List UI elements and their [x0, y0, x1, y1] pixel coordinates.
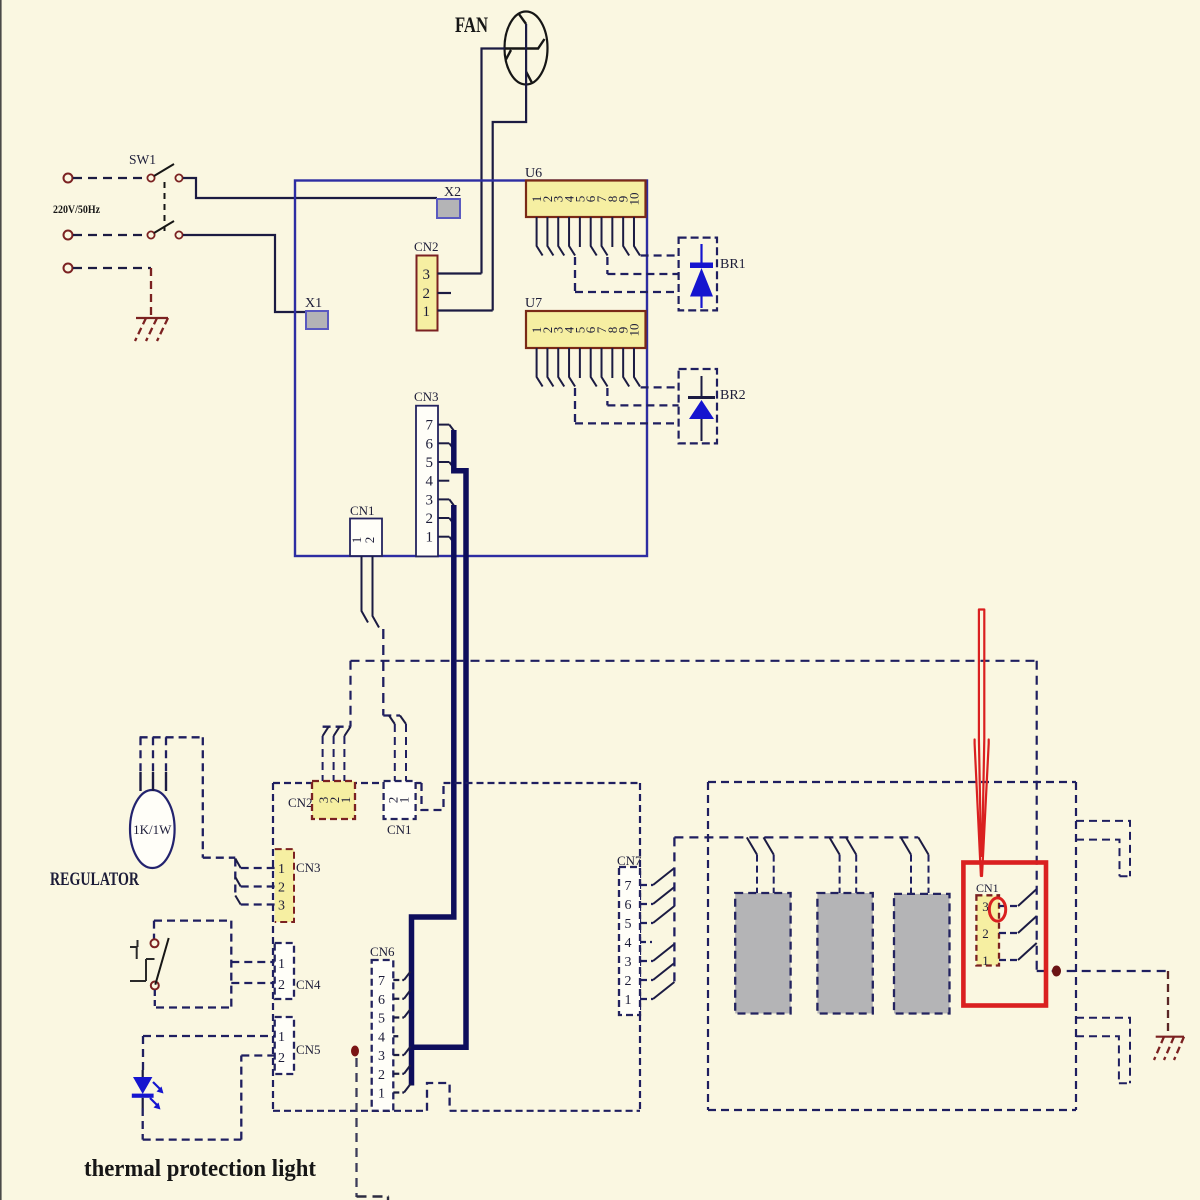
svg-text:5: 5: [426, 455, 434, 471]
wire CN1 drop bus: [383, 714, 400, 716]
svg-text:1: 1: [278, 1030, 285, 1045]
svg-text:2: 2: [378, 1068, 385, 1083]
wire CN4 riser: [230, 921, 232, 1008]
wire to CN3 module: [203, 857, 236, 859]
svg-text:1K/1W: 1K/1W: [133, 822, 172, 837]
display board CN1 notch: [422, 783, 444, 810]
thermal switch blade: [155, 938, 168, 985]
svg-text:1: 1: [278, 957, 285, 972]
ground (power unit): [1156, 1036, 1184, 1038]
switch SW1 pole1 right contact: [175, 174, 182, 181]
wire U6 pin7 bus to BR1: [607, 273, 678, 275]
svg-text:2: 2: [362, 537, 377, 544]
connector CN2 (module): [312, 781, 355, 819]
svg-text:CN4: CN4: [296, 977, 321, 992]
LED light arrow 1: [153, 1082, 161, 1090]
fan motor M1 body: [505, 12, 548, 85]
wire hook CN3 module pin2: [235, 877, 240, 887]
wire drop to CN1 module pin1: [405, 724, 407, 781]
display board bottom notch: [427, 1083, 450, 1111]
wire CN1 power pin2 stub: [999, 932, 1018, 934]
thermal actuator bracket: [130, 940, 155, 981]
CN6 pin2 hook: [404, 1065, 411, 1074]
wire CN3 module distribution: [234, 859, 236, 896]
svg-text:5: 5: [378, 1012, 385, 1027]
wire drop CN2 module pin3: [322, 736, 324, 781]
wire CN2 pin2 stub: [438, 292, 452, 294]
resistor 1K/1W body: [130, 790, 175, 868]
svg-text:CN1: CN1: [387, 822, 412, 837]
diode BR1 anode lead: [700, 244, 702, 264]
wire PE drop: [150, 268, 152, 316]
svg-text:X2: X2: [444, 185, 461, 200]
wire thermal switch top: [154, 919, 231, 921]
wire SW1 pole2 to X1: [183, 235, 306, 312]
annotation red arrow: [975, 610, 989, 877]
svg-text:3: 3: [278, 899, 285, 914]
wire terminal N to SW1: [73, 234, 147, 236]
svg-text:6: 6: [378, 993, 385, 1008]
resistor lead 2 dashed: [152, 737, 154, 772]
wire U6 pin7 drop: [606, 257, 608, 274]
svg-text:4: 4: [378, 1030, 385, 1045]
U6 pin leads: [537, 217, 543, 256]
wire CN2 pin1 to fan: [438, 309, 493, 311]
display board bottom edge: [273, 1110, 427, 1112]
heater block 1 pin drops: [757, 855, 774, 893]
junction dot (red): [351, 1046, 359, 1057]
CN6 pin6 hook: [404, 990, 411, 999]
terminal block X2: [437, 199, 460, 218]
svg-text:CN5: CN5: [296, 1042, 321, 1057]
wire junction bottom corner: [387, 1197, 389, 1200]
CN3 pin7 hook: [449, 425, 454, 431]
wire fan left lead to CN2 pin3: [482, 49, 506, 274]
svg-text:7: 7: [378, 974, 385, 989]
wire resistor bus drop: [202, 737, 204, 857]
svg-text:1: 1: [338, 797, 353, 804]
svg-text:3: 3: [625, 955, 632, 970]
svg-text:CN6: CN6: [370, 944, 395, 959]
wire LED bottom run: [143, 1138, 242, 1140]
svg-text:1: 1: [378, 1087, 385, 1102]
terminal L (phase): [64, 174, 73, 183]
connector CN6: [372, 960, 394, 1111]
svg-text:10: 10: [626, 193, 641, 206]
svg-text:U7: U7: [525, 296, 542, 311]
heater block 2 pin hooks: [829, 837, 856, 854]
power unit tab lower: [1076, 1018, 1130, 1084]
wire fan bottom lead to CN2 pin1: [493, 24, 526, 311]
terminal block X1: [306, 311, 328, 329]
svg-text:2: 2: [278, 978, 285, 993]
heater block 2: [817, 893, 872, 1014]
diode BR2 bottom lead: [701, 419, 703, 441]
LED D1 triangle: [133, 1077, 152, 1094]
wire CN3 module pin3 dash: [241, 903, 275, 905]
wire junction drop: [355, 1058, 357, 1197]
wire hook to CN1 module pin1: [400, 716, 406, 725]
ground (mains earth): [136, 317, 168, 319]
svg-text:REGULATOR: REGULATOR: [50, 869, 139, 890]
wire hook CN3 module pin1: [235, 859, 240, 869]
thermal switch top contact: [151, 939, 159, 947]
CN7 pin7 hook: [653, 868, 674, 885]
display board outline top edge: [273, 782, 422, 784]
svg-text:SW1: SW1: [129, 152, 156, 167]
switch SW1 pole2 right contact: [175, 231, 182, 238]
svg-text:CN3: CN3: [296, 860, 321, 875]
wire junction bottom run: [357, 1195, 390, 1197]
svg-text:BR1: BR1: [720, 257, 746, 272]
connector CN1 (power unit): [976, 895, 999, 965]
wire CN1 board drop (dashed): [382, 629, 384, 716]
CN3 pin2 hook: [449, 518, 454, 524]
wire U6 pin10 bus to BR1: [641, 254, 679, 256]
diode BR2 anode lead: [701, 376, 703, 396]
heater block 1 pin hooks: [747, 837, 774, 854]
connector CN1 (module): [384, 781, 416, 819]
heater block 1: [735, 893, 790, 1014]
wire CN5 pin2 dash: [241, 1054, 274, 1056]
svg-text:X1: X1: [305, 296, 322, 311]
CN6 pin stubs: [393, 979, 404, 981]
wire CN4 pin2 dash: [231, 982, 274, 984]
wire U7 pin4 bus to BR2: [575, 422, 679, 424]
svg-text:1: 1: [278, 862, 285, 877]
svg-text:4: 4: [625, 936, 632, 951]
wire LED cathode pin: [142, 1098, 144, 1108]
wire long bus to CN1 (right unit): [351, 660, 1037, 662]
wire U7 pin10 bus to BR2: [641, 386, 679, 388]
svg-text:6: 6: [625, 898, 632, 913]
wire terminal PE to ground: [73, 267, 151, 269]
diode BR2 cathode bar: [688, 396, 715, 399]
diode BR2 triangle: [689, 400, 714, 419]
svg-text:CN1: CN1: [350, 503, 375, 518]
svg-text:CN7: CN7: [617, 853, 642, 868]
wire ground drop right: [1167, 971, 1169, 1036]
wire CN1 power pin2 hook: [1018, 916, 1037, 933]
svg-text:2: 2: [982, 926, 989, 941]
resistor lead 1 pin: [139, 772, 141, 791]
svg-text:3: 3: [423, 267, 431, 283]
wire CN5 pin2 riser: [240, 1056, 242, 1140]
wire U7 pin7 bus to BR2: [607, 404, 678, 406]
LED light arrow 2: [150, 1098, 158, 1106]
wire drop CN2 module pin2: [333, 736, 335, 781]
wire hook CN3 module pin3: [235, 896, 240, 905]
CN7 pin5 hook: [653, 906, 674, 923]
svg-text:7: 7: [426, 418, 434, 434]
wire CN7 bus to power unit: [674, 836, 918, 838]
U7 pin leads: [537, 348, 543, 387]
IC U7 (resistor network): [526, 311, 646, 348]
fan blades: [505, 14, 545, 83]
svg-text:4: 4: [426, 474, 434, 490]
CN1 board pin leads: [362, 556, 380, 628]
wire CN2 module bus: [323, 726, 351, 728]
thermal switch bottom lead: [154, 990, 156, 1008]
svg-text:3: 3: [426, 492, 434, 508]
display board bottom edge right part: [450, 1110, 640, 1112]
wire hook CN2 module pin2: [334, 727, 340, 736]
wire CN5 pin1 dash: [143, 1035, 275, 1037]
diode BR1 bottom lead: [700, 297, 702, 309]
svg-text:2: 2: [278, 881, 285, 896]
display board left edge: [272, 783, 274, 1111]
thermal switch bottom contact: [151, 982, 159, 990]
svg-text:CN2: CN2: [414, 239, 439, 254]
heater block 3 pin drops: [911, 855, 929, 893]
svg-text:CN1: CN1: [976, 881, 999, 895]
CN3 pin3 hook: [449, 499, 454, 505]
svg-text:2: 2: [278, 1051, 285, 1066]
svg-text:1: 1: [426, 530, 434, 546]
CN6 pin5 hook: [404, 1009, 411, 1018]
terminal N: [64, 231, 73, 240]
heater block 2 pin drops: [840, 855, 857, 893]
resistor lead 3 dashed: [165, 737, 167, 772]
power unit outline top: [708, 781, 1076, 783]
wire LED anode drop: [142, 1036, 144, 1070]
wire CN2 pin3 to fan: [438, 272, 482, 274]
wire CN3 module pin1 dash: [241, 867, 275, 869]
svg-text:U6: U6: [525, 166, 542, 181]
connector CN5: [275, 1017, 294, 1074]
connector CN2 (board): [417, 256, 438, 331]
IC U6 (resistor network): [526, 181, 646, 218]
wire terminal L to SW1: [73, 177, 147, 179]
wire drop to CN1 module pin2: [394, 724, 396, 781]
wire U7 pin7 drop: [606, 388, 608, 405]
CN7 pin1 hook: [653, 982, 674, 999]
svg-text:7: 7: [625, 879, 632, 894]
power unit tab upper: [1076, 821, 1130, 876]
svg-text:2: 2: [426, 511, 434, 527]
wire U7 pin4 drop: [574, 388, 576, 423]
wire U6 pin4 bus to BR1: [575, 291, 679, 293]
CN3 pin1 hook: [449, 537, 454, 543]
resistor lead 3 pin: [165, 772, 167, 791]
display board top edge right part: [444, 782, 641, 784]
svg-text:thermal protection light: thermal protection light: [84, 1156, 316, 1182]
svg-text:FAN: FAN: [455, 12, 488, 37]
scan edge artifact: [0, 0, 2, 1200]
CN3 pin6 hook: [449, 443, 454, 449]
svg-text:1: 1: [625, 993, 632, 1008]
CN3 pin5 hook: [449, 462, 454, 468]
svg-text:5: 5: [625, 917, 632, 932]
switch SW1 pole1 blade: [154, 164, 174, 176]
power unit outline bottom: [708, 1109, 1076, 1111]
wire to right ground: [1037, 970, 1168, 972]
wire bus drop to CN2 module: [349, 661, 351, 727]
annotation red rectangle: [963, 863, 1046, 1006]
wire CN1 power pin3 hook: [1018, 889, 1037, 906]
CN7 pin6 hook: [653, 887, 674, 904]
LED D1 cathode bar: [132, 1094, 154, 1098]
wire hook CN2 module pin3: [323, 727, 329, 736]
connector CN4: [275, 943, 294, 999]
power unit outline left: [707, 782, 709, 1110]
CN7 pin stubs: [640, 884, 653, 886]
connector CN1 (board): [350, 519, 382, 557]
wire drop CN2 module pin1: [343, 736, 345, 781]
junction dot right (maroon): [1052, 966, 1061, 977]
switch SW1 pole2 blade: [154, 221, 174, 233]
wire SW1 pole1 to X2: [183, 178, 437, 198]
wire switch top drop: [153, 921, 155, 939]
CN7 pin2 hook: [653, 963, 674, 980]
wire hook CN2 module pin1: [344, 727, 350, 736]
diode BR1 triangle: [690, 268, 713, 297]
svg-text:6: 6: [426, 436, 434, 452]
switch SW1 pole1 left contact: [147, 174, 154, 181]
CN7 pin3 hook: [653, 944, 674, 961]
wire CN7 bus riser: [673, 837, 675, 983]
resistor lead 1 dashed: [139, 737, 141, 772]
CN3 pin stubs: [439, 424, 450, 426]
connector CN7: [619, 867, 640, 1015]
svg-text:BR2: BR2: [720, 388, 746, 403]
svg-text:220V/50Hz: 220V/50Hz: [53, 202, 101, 216]
display board right edge: [639, 783, 641, 1111]
annotation red circle: [989, 898, 1005, 921]
svg-text:3: 3: [982, 899, 989, 914]
resistor lead 2 pin: [152, 772, 154, 791]
CN6 pin3 hook: [404, 1047, 411, 1056]
thick wire B (CN3.3 to CN6 lower): [412, 505, 454, 1086]
terminal PE: [64, 264, 73, 273]
wire CN3 module pin2 dash: [241, 885, 275, 887]
connector CN3 (board): [416, 406, 438, 557]
connector CN3 (module): [275, 849, 294, 922]
CN6 pin1 hook: [404, 1084, 411, 1093]
wire CN1 bus drop: [1036, 661, 1038, 971]
wire CN4 pin1 dash: [231, 961, 274, 963]
heater block 3 pin hooks: [901, 837, 929, 854]
switch SW1 mechanical link: [164, 182, 166, 231]
svg-text:1: 1: [397, 797, 412, 804]
CN6 pin7 hook: [404, 972, 411, 981]
control board outline: [295, 181, 647, 557]
svg-text:2: 2: [423, 286, 431, 302]
svg-text:CN3: CN3: [414, 389, 439, 404]
svg-text:1: 1: [423, 304, 431, 320]
svg-text:CN2: CN2: [288, 795, 313, 810]
thick wire A (CN3.7 to CN6 upper): [414, 430, 467, 1047]
bridge BR1 outline: [679, 238, 717, 311]
wire U6 pin4 drop: [574, 257, 576, 292]
wire CN1 power pin3 stub: [999, 905, 1018, 907]
bridge BR2 outline: [679, 369, 717, 443]
diode BR1 cathode bar: [690, 263, 713, 269]
wire CN1 power pin1 stub: [999, 959, 1018, 961]
svg-text:2: 2: [625, 974, 632, 989]
wire LED cathode drop: [142, 1108, 144, 1140]
svg-text:1: 1: [982, 953, 989, 968]
wire LED anode pin: [142, 1070, 144, 1078]
power unit outline right: [1075, 782, 1077, 1110]
resistor top bus: [140, 736, 203, 738]
switch SW1 pole2 left contact: [147, 231, 154, 238]
svg-text:3: 3: [378, 1049, 385, 1064]
wire hook to CN1 module pin2: [389, 716, 395, 725]
wire CN1 power pin1 hook: [1018, 943, 1037, 960]
wire thermal switch bottom: [156, 1006, 231, 1008]
svg-text:10: 10: [626, 324, 641, 337]
heater block 3: [894, 894, 950, 1014]
